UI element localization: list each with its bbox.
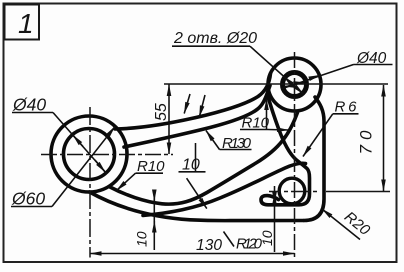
svg-text:1: 1 [18,8,34,39]
dim 10 mid underline [179,171,206,173]
dim 70 line [383,85,385,191]
leader R20 [322,209,360,240]
right hub hole O20 [283,73,307,97]
right edge with R20 corner [304,97,324,221]
horizontal centerline right hub / 55 and 70 extension [164,83,388,85]
leader O40 top-right [281,65,354,90]
leader O60 through left hub [52,127,115,207]
dim 10 bottom-right line [274,186,276,252]
O40 arrow on inner circle upper-left [73,135,83,147]
dim 55 line [168,85,170,155]
leader R10 upper fillet [266,99,268,130]
dim 10 bottom-right arrow up [274,193,276,200]
label R130 underline [220,149,252,151]
dim 10 bottom-right arrow down [274,197,276,204]
svg-text:10: 10 [134,231,150,247]
O20 arrow left inside ring [284,85,290,88]
label R10 left underline [136,172,164,174]
O40 arrow on outer circle [313,75,321,78]
right hub vertical centerline through bottom hole / 130 extension [294,52,296,258]
label R10 right underline [240,129,268,131]
svg-text:R10: R10 [137,158,165,175]
bottom outer edge arc R120 [90,192,304,221]
top outer edge arc [115,74,271,130]
inner lower edge arc (valley upper line, rises to hub bottom) [109,113,298,205]
inner lower edge arc (valley lower line) [143,163,306,215]
inner recess contour: descent from fillet, R6 corner, pocket around lower hole [261,95,310,205]
dim 10 mid arrow b [199,95,205,117]
R120 label slash [224,232,235,247]
O20 arrow right inside ring [299,82,305,85]
left hub vertical centerline / 130 extension [89,107,91,258]
svg-text:130: 130 [196,237,222,254]
leader R10 left [117,173,136,190]
svg-text:55: 55 [153,103,170,121]
label 2 otv O20 underline [172,45,250,47]
label O60 underline [11,206,52,208]
arrow on hole edge upper-left [284,77,288,81]
svg-text:Ø40: Ø40 [12,95,46,115]
svg-text:2 отв. Ø20: 2 отв. Ø20 [173,30,257,47]
leader O40 through left hub [53,113,107,175]
left hub horizontal centerline [41,154,173,156]
O40 arrow on inner circle lower-right [95,160,105,172]
dim 130 line [90,253,295,255]
leader R10 lower fillet [268,129,289,132]
leader 2 otv O20 [250,46,304,94]
leader R130 [206,131,220,150]
left hub inner circle O40 [64,129,115,180]
dim 10 bottom-left line [153,194,155,250]
leader R6 [303,114,333,157]
right hub outer circle O40 [268,58,321,111]
svg-text:Ø60: Ø60 [11,189,45,209]
bottom hole horizontal centerline [269,191,317,193]
dim 10 mid leader stem [195,143,197,172]
70 bottom extension line [326,191,390,193]
sheet number box [5,5,40,40]
leader R120 [187,178,207,208]
svg-text:Ø40: Ø40 [356,50,387,67]
dim 10 bottom-left arrow down [153,195,155,202]
svg-text:10: 10 [182,157,200,174]
inner top arc R130 [124,86,270,148]
label O40 top-right underline [354,64,393,66]
label O40 top-left underline [12,112,53,114]
svg-text:R10: R10 [242,115,270,132]
label R6 underline [333,113,359,115]
svg-text:R130: R130 [222,135,252,152]
left hub outer circle O60 [51,116,127,192]
bottom hole O20 [279,178,305,204]
dim 10 bottom-left arrow up [153,221,155,228]
dim 10 mid arrow a [184,94,190,114]
svg-text:10: 10 [259,230,275,246]
